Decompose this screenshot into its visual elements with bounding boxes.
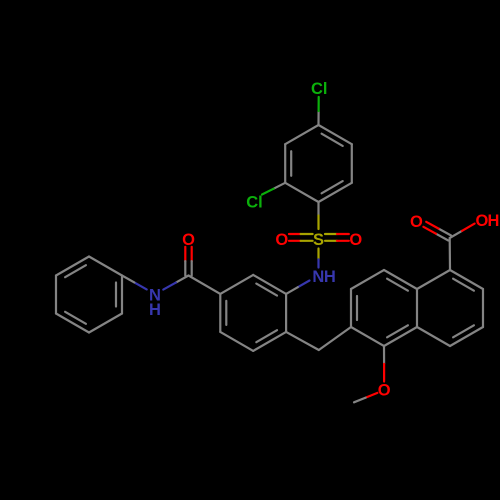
C=O double bond (acid): [439, 229, 452, 236]
bond CH2-naphthalene: [319, 327, 351, 350]
ring: N-phenyl: [121, 276, 123, 314]
bond S-N(H): [317, 249, 319, 260]
svg-text:Cl: Cl: [246, 194, 263, 212]
bond ring-S: [317, 202, 319, 216]
bond ring-CH2 bridge: [286, 332, 319, 350]
svg-text:H: H: [488, 212, 500, 230]
S=O right double bond: [325, 233, 337, 235]
svg-text:Cl: Cl: [311, 80, 328, 98]
aromatic inner lines central ring: [256, 284, 277, 296]
bond C(=O)-ring: [189, 276, 221, 294]
aromatic inner lines naphthalene left: [387, 279, 408, 291]
ring: naphthalene left: [384, 270, 417, 289]
svg-text:N: N: [312, 268, 324, 286]
C=O double bond (amide): [184, 247, 186, 261]
svg-text:O: O: [410, 213, 423, 231]
S=O left double bond: [289, 233, 301, 235]
bond N(sulfonamide)-ring: [298, 281, 310, 288]
aromatic inner lines ring P: [322, 134, 343, 146]
svg-text:S: S: [313, 231, 324, 249]
svg-text:H: H: [324, 268, 336, 286]
ring: 2,4-dichlorophenyl: [319, 125, 352, 144]
svg-text:O: O: [275, 231, 288, 249]
svg-text:O: O: [182, 231, 195, 249]
bond ring-O (methoxy): [383, 346, 385, 364]
bond N-phenyl: [134, 282, 146, 289]
bond ring-COOH: [449, 238, 451, 270]
svg-text:H: H: [149, 301, 161, 319]
bond O-CH3: [366, 393, 378, 398]
ring: central benzene: [253, 275, 286, 294]
ring: naphthalene right: [417, 270, 450, 289]
aromatic inner lines left phenyl: [115, 283, 117, 307]
bond C-Cl (left): [274, 183, 286, 189]
bond C(=O)-N: [176, 276, 189, 283]
bond C-OH: [450, 231, 462, 238]
svg-text:O: O: [378, 381, 391, 399]
aromatic inner lines naphthalene right: [453, 279, 474, 291]
bond C-Cl (top): [317, 111, 319, 125]
svg-text:O: O: [349, 231, 362, 249]
svg-text:O: O: [475, 212, 488, 230]
